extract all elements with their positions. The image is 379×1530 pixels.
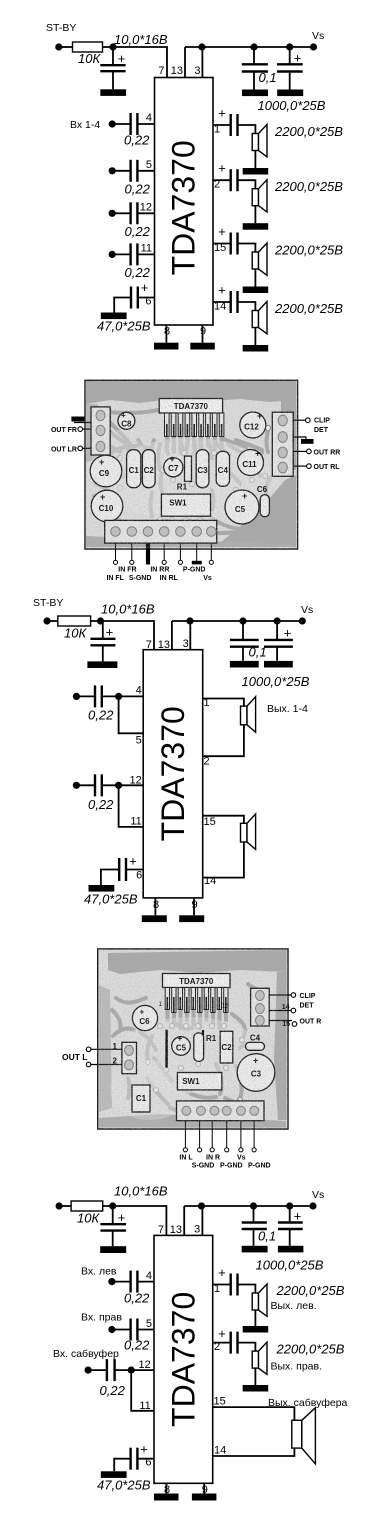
capacitor 0,22 pin11 bbox=[112, 243, 154, 265]
wire resistor to pin7 sch3 bbox=[103, 1206, 167, 1235]
svg-text:IN RR: IN RR bbox=[150, 567, 169, 574]
node pin3 rail junction bbox=[198, 43, 205, 50]
IC TDA7370 silk box A bbox=[159, 399, 222, 414]
node 1000 junction sch3 bbox=[286, 1202, 293, 1209]
capacitor C6 PCB-B bbox=[132, 1005, 157, 1030]
wire pin8 sch2 bbox=[154, 898, 156, 915]
ground ST-BY cap bbox=[100, 89, 126, 96]
wire pin14 to subwoofer sch3 bbox=[213, 1448, 295, 1456]
svg-text:Вых. прав.: Вых. прав. bbox=[271, 1361, 323, 1373]
ground 0,1 cap bbox=[242, 90, 268, 97]
svg-text:6: 6 bbox=[145, 1457, 151, 1469]
resistor R 10K bbox=[73, 42, 103, 52]
svg-text:3: 3 bbox=[194, 1224, 200, 1236]
op-amp U1 TDA7370 sch3 bbox=[154, 1235, 213, 1483]
ground pin8 sch2 bbox=[142, 915, 167, 922]
svg-text:IN R: IN R bbox=[206, 1155, 220, 1162]
wire stub IN FL PCB-A bbox=[131, 543, 133, 560]
capacitor 0,22 input A sch2 bbox=[76, 685, 143, 707]
svg-text:+: + bbox=[218, 106, 226, 121]
ground flag left PCB-A bbox=[71, 417, 91, 423]
ground bar P-GND PCB-A bbox=[192, 561, 202, 565]
wire pin3 drop sch3 bbox=[201, 1206, 203, 1235]
wire pin15 to speaker sch2 bbox=[203, 816, 244, 824]
wire junction to pin5 sch2 bbox=[119, 696, 144, 733]
substrate light zone B bbox=[115, 1017, 265, 1093]
node OUT RR terminal PCB-A bbox=[293, 449, 340, 456]
svg-text:12: 12 bbox=[130, 774, 142, 786]
capacitor 0,22 pin5 sch3 bbox=[112, 1319, 154, 1341]
connector right PCB-B bbox=[251, 988, 270, 1026]
ground speaker pin14 bbox=[243, 345, 269, 352]
node Vs PCB-A bbox=[209, 560, 213, 564]
svg-text:3: 3 bbox=[194, 65, 200, 77]
svg-text:9: 9 bbox=[192, 899, 198, 911]
svg-text:0,22: 0,22 bbox=[100, 1383, 126, 1398]
wire pin8 bbox=[165, 325, 167, 343]
wire speaker to ground pin1 bbox=[254, 151, 256, 169]
wire resistor to pin7 sch2 bbox=[91, 621, 154, 650]
node IN R PCB-B bbox=[210, 1148, 214, 1152]
wire supply rail bbox=[185, 46, 314, 48]
wire pin8 sch3 bbox=[165, 1483, 167, 1493]
wire speaker to ground pin2 bbox=[254, 206, 256, 224]
svg-text:2: 2 bbox=[214, 1341, 220, 1353]
svg-text:11: 11 bbox=[130, 815, 141, 827]
ground speaker pin2 sch3 bbox=[243, 1385, 269, 1392]
svg-text:+: + bbox=[218, 1265, 226, 1280]
node 0,1 junction sch2 bbox=[239, 617, 246, 624]
svg-text:5: 5 bbox=[146, 159, 152, 171]
connector left PCB-A bbox=[91, 407, 110, 455]
wire stub Vs PCB-B bbox=[240, 1121, 242, 1148]
svg-text:8: 8 bbox=[153, 899, 159, 911]
wire pin2 to speaker sch2 bbox=[203, 725, 244, 756]
speaker pin15 bbox=[252, 243, 267, 275]
capacitor C1 PCB-B bbox=[132, 1085, 150, 1112]
node pin3 junction sch2 bbox=[186, 617, 193, 624]
svg-text:P-GND: P-GND bbox=[248, 1163, 271, 1170]
svg-text:6: 6 bbox=[145, 296, 151, 308]
svg-text:Вых. 1-4: Вых. 1-4 bbox=[267, 703, 308, 715]
wire speaker to ground pin1 sch3 bbox=[254, 1310, 256, 1326]
svg-text:IN L: IN L bbox=[179, 1155, 193, 1162]
node ST-BY junction bbox=[109, 43, 116, 50]
wire pin9 sch2 bbox=[193, 898, 195, 915]
capacitor C3 PCB-A bbox=[196, 450, 209, 488]
svg-text:+: + bbox=[218, 283, 226, 298]
svg-text:+: + bbox=[141, 280, 149, 295]
wire stub IN RR PCB-A bbox=[163, 543, 165, 560]
svg-text:0,22: 0,22 bbox=[88, 708, 114, 723]
svg-text:10,0*16В: 10,0*16В bbox=[101, 602, 155, 617]
svg-text:10К: 10К bbox=[64, 626, 87, 641]
node input pin12 bbox=[109, 210, 116, 217]
node junction pin12 sch2 bbox=[115, 782, 122, 789]
svg-text:OUT RR: OUT RR bbox=[314, 450, 341, 457]
op-amp U1 TDA7370 sch2 bbox=[143, 650, 203, 898]
svg-text:+: + bbox=[294, 51, 302, 66]
svg-text:2200,0*25В: 2200,0*25В bbox=[274, 243, 343, 258]
ground ST-BY cap sch2 bbox=[87, 661, 117, 668]
svg-text:Вх 1-4: Вх 1-4 bbox=[70, 119, 100, 131]
svg-text:IN FL: IN FL bbox=[106, 575, 124, 582]
node 14 terminal PCB-B bbox=[269, 1004, 296, 1013]
PCB board A bbox=[85, 380, 298, 549]
svg-text:Vs: Vs bbox=[301, 604, 313, 616]
svg-text:+: + bbox=[106, 625, 114, 640]
svg-text:1000,0*25В: 1000,0*25В bbox=[258, 98, 326, 113]
svg-text:Vs: Vs bbox=[203, 575, 212, 582]
svg-text:Вх. лев: Вх. лев bbox=[81, 1266, 117, 1278]
copper pour bottom right wedge A bbox=[215, 475, 296, 547]
node input pin11 bbox=[109, 251, 116, 258]
wire cap to speaker pin1 sch3 bbox=[238, 1285, 256, 1294]
IC legs A bbox=[165, 413, 224, 437]
node Vs terminal sch3 bbox=[309, 1202, 316, 1209]
jumper wire black 2 B bbox=[202, 1030, 204, 1060]
capacitor C8 PCB-A bbox=[118, 411, 135, 429]
wire stub Vs PCB-A bbox=[210, 543, 212, 560]
svg-text:10,0*16В: 10,0*16В bbox=[114, 1184, 168, 1199]
svg-text:15: 15 bbox=[204, 816, 216, 828]
capacitor C9 PCB-A bbox=[90, 455, 122, 487]
wire cap to speaker pin1 bbox=[238, 125, 256, 134]
connector bottom PCB-A bbox=[105, 520, 217, 543]
svg-text:2200,0*25В: 2200,0*25В bbox=[274, 179, 343, 194]
svg-text:DET: DET bbox=[300, 1003, 315, 1010]
svg-text:10К: 10К bbox=[77, 1211, 100, 1226]
svg-text:+: + bbox=[218, 224, 226, 239]
ground pin8 bbox=[154, 343, 179, 350]
svg-text:13: 13 bbox=[171, 65, 183, 77]
wire stub IN FR PCB-A bbox=[115, 543, 117, 560]
svg-text:0,22: 0,22 bbox=[88, 797, 114, 812]
wire ST-BY to resistor bbox=[59, 46, 73, 48]
node terminal sch3 bbox=[56, 1202, 63, 1209]
svg-text:+: + bbox=[294, 1209, 302, 1224]
speaker pin14 bbox=[252, 302, 267, 334]
capacitor 0,22 pin4 sch3 bbox=[112, 1271, 154, 1293]
capacitor 0,22 pin4 bbox=[112, 113, 154, 135]
traces B bbox=[112, 984, 266, 1113]
ground 47 cap bbox=[101, 313, 127, 320]
grain overlay B bbox=[98, 949, 288, 1129]
svg-text:Вых. лев.: Вых. лев. bbox=[271, 1300, 317, 1312]
capacitor 10,0*16V sch2 bbox=[90, 621, 115, 661]
ground flag right PCB-A bbox=[293, 437, 313, 444]
svg-text:Vs: Vs bbox=[312, 30, 324, 42]
node IN RL PCB-A bbox=[178, 560, 182, 564]
ground pin9 sch3 bbox=[192, 1494, 217, 1501]
speaker OUT2 sch2 bbox=[241, 814, 256, 850]
wire speaker to ground pin2 sch3 bbox=[254, 1368, 256, 1385]
svg-text:OUT FR: OUT FR bbox=[51, 427, 77, 434]
wire stub S-GND thick PCB-A bbox=[146, 543, 150, 564]
svg-text:OUT R: OUT R bbox=[300, 1019, 322, 1026]
svg-text:2: 2 bbox=[214, 179, 220, 191]
svg-text:P-GND: P-GND bbox=[220, 1163, 243, 1170]
ground 0,1 sch2 bbox=[230, 661, 259, 668]
resistor 10K sch3 bbox=[71, 1201, 103, 1211]
wire pin9 sch3 bbox=[203, 1483, 205, 1493]
svg-text:ST-BY: ST-BY bbox=[33, 597, 63, 609]
svg-text:TDA7370: TDA7370 bbox=[155, 706, 191, 841]
wire speaker to ground pin15 bbox=[254, 269, 256, 287]
svg-text:2200,0*25В: 2200,0*25В bbox=[276, 1342, 345, 1357]
svg-text:10К: 10К bbox=[78, 51, 101, 66]
capacitor 0,22 pin5 bbox=[112, 160, 154, 182]
capacitor C5 PCB-A bbox=[225, 490, 259, 524]
svg-text:OUT L: OUT L bbox=[62, 1052, 88, 1062]
capacitor 47,0*25V sch3 bbox=[114, 1442, 154, 1472]
wire cap to speaker pin2 sch3 bbox=[238, 1343, 256, 1352]
IC legs B bbox=[165, 988, 228, 1014]
wire cap to speaker pin15 bbox=[238, 244, 256, 253]
svg-text:9: 9 bbox=[200, 326, 206, 338]
substrate light zone A bbox=[105, 438, 275, 522]
svg-text:P-GND: P-GND bbox=[183, 567, 206, 574]
resistor R1 PCB-A bbox=[177, 456, 192, 491]
wire OUT L bottom B bbox=[90, 1064, 122, 1066]
svg-text:6: 6 bbox=[136, 870, 142, 882]
svg-text:Vs: Vs bbox=[312, 1189, 324, 1201]
svg-text:2: 2 bbox=[204, 756, 210, 768]
connector left PCB-B bbox=[122, 1042, 137, 1073]
connector right PCB-A bbox=[272, 412, 293, 476]
wire terminal to resistor sch3 bbox=[59, 1205, 71, 1207]
grain overlay A bbox=[85, 380, 298, 549]
capacitor 47,0*25V pin6 bbox=[114, 280, 154, 313]
ground 1000 sch3 bbox=[278, 1246, 304, 1253]
wire terminal to resistor sch2 bbox=[47, 620, 58, 622]
svg-text:CLIP: CLIP bbox=[314, 418, 330, 425]
wire OUT L top B bbox=[90, 1048, 122, 1050]
svg-text:+: + bbox=[118, 51, 126, 66]
ground pin9 bbox=[190, 343, 215, 350]
node junction pin4 sch2 bbox=[115, 693, 122, 700]
wire junction to pin11 sch3 bbox=[131, 1370, 154, 1411]
capacitor 0,1 sch2 bbox=[230, 621, 267, 661]
copper pour right column A bbox=[281, 399, 296, 470]
svg-text:7: 7 bbox=[158, 1224, 164, 1236]
ground speaker pin2 bbox=[243, 223, 269, 230]
svg-text:47,0*25В: 47,0*25В bbox=[97, 1478, 151, 1493]
node OUT R terminal PCB-B bbox=[269, 1019, 321, 1029]
node junction pin12 sch3 bbox=[128, 1367, 135, 1374]
wire stub IN RL PCB-A bbox=[179, 543, 181, 560]
PCB board B bbox=[98, 949, 288, 1129]
svg-text:5: 5 bbox=[136, 735, 142, 747]
node junction sch3 bbox=[109, 1202, 116, 1209]
ground pin9 sch2 bbox=[179, 915, 204, 922]
svg-text:0,22: 0,22 bbox=[124, 1291, 150, 1306]
svg-text:47,0*25В: 47,0*25В bbox=[84, 892, 138, 907]
svg-text:S-GND: S-GND bbox=[129, 575, 152, 582]
wire stub P-GND2 PCB-B bbox=[253, 1121, 255, 1148]
node pin3 junction sch3 bbox=[198, 1202, 205, 1209]
capacitor C7 PCB-A bbox=[164, 454, 183, 477]
svg-text:10,0*16В: 10,0*16В bbox=[114, 32, 168, 47]
capacitor C5 PCB-B bbox=[172, 1034, 191, 1055]
svg-text:13: 13 bbox=[158, 639, 170, 651]
node OUT FR terminal PCB-A bbox=[51, 427, 91, 434]
wire pin1 to speaker sch2 bbox=[203, 699, 244, 707]
svg-text:0,1: 0,1 bbox=[249, 645, 267, 660]
speaker right sch3 bbox=[252, 1342, 267, 1374]
svg-text:0,1: 0,1 bbox=[258, 1229, 276, 1244]
svg-text:+: + bbox=[284, 626, 292, 641]
svg-text:TDA7370: TDA7370 bbox=[166, 140, 202, 275]
svg-text:1: 1 bbox=[214, 1283, 220, 1295]
wire supply rail sch3 bbox=[184, 1205, 313, 1207]
node IN RR PCB-A bbox=[162, 560, 166, 564]
capacitor 1000,0*25V bbox=[277, 47, 303, 90]
ground 47 cap sch3 bbox=[101, 1471, 127, 1478]
node ST-BY terminal sch2 bbox=[43, 617, 50, 624]
switch SW1 PCB-A bbox=[161, 494, 210, 516]
node Vs terminal bbox=[310, 43, 317, 50]
node CLIP DET terminal PCB-B bbox=[269, 993, 316, 1010]
capacitor C4 PCB-A bbox=[216, 451, 229, 486]
switch SW1 PCB-B bbox=[177, 1073, 221, 1090]
node 1000 cap junction bbox=[286, 43, 293, 50]
IC TDA7370 silk box B bbox=[163, 974, 231, 988]
node OUT L top B bbox=[86, 1047, 91, 1052]
ground speaker pin1 sch3 bbox=[243, 1326, 269, 1333]
node P-GND2 PCB-B bbox=[252, 1148, 256, 1152]
node OUT RL terminal PCB-A bbox=[293, 464, 340, 471]
svg-text:IN FR: IN FR bbox=[118, 567, 136, 574]
svg-text:Вх. сабвуфер: Вх. сабвуфер bbox=[53, 1348, 119, 1360]
capacitor 1000,0*25V sch2 bbox=[264, 621, 293, 661]
node CLIP DET terminal PCB-A bbox=[293, 418, 330, 435]
svg-text:ST-BY: ST-BY bbox=[46, 22, 76, 34]
ground pin8 sch3 bbox=[154, 1494, 179, 1501]
svg-text:DET: DET bbox=[314, 427, 329, 434]
wire cap to speaker pin14 bbox=[238, 302, 256, 311]
capacitor 2200,0*25V pin2 sch3 bbox=[213, 1326, 238, 1354]
node input B sch2 bbox=[73, 782, 80, 789]
svg-text:1000,0*25В: 1000,0*25В bbox=[256, 1258, 324, 1273]
node 0,1 junction sch3 bbox=[250, 1202, 257, 1209]
wire pin13 drop sch2 bbox=[171, 621, 173, 650]
svg-text:14: 14 bbox=[214, 1445, 226, 1457]
svg-text:4: 4 bbox=[146, 1270, 152, 1282]
svg-text:2200,0*25В: 2200,0*25В bbox=[274, 124, 343, 139]
copper pour bottom strip B bbox=[99, 1114, 286, 1128]
node 0,1 cap junction bbox=[250, 43, 257, 50]
svg-text:TDA7370: TDA7370 bbox=[165, 1292, 201, 1427]
capacitor C3 PCB-B bbox=[237, 1054, 275, 1092]
copper pour left strip B bbox=[99, 985, 112, 1112]
node OUT L bottom B bbox=[86, 1062, 91, 1067]
capacitor 2200,0*25V pin14 bbox=[213, 283, 238, 314]
node input pin5 sch3 bbox=[108, 1326, 115, 1333]
capacitor C4 PCB-B bbox=[246, 1034, 265, 1051]
jumper wire black 1 B bbox=[165, 1030, 167, 1068]
svg-text:12: 12 bbox=[139, 1359, 151, 1371]
node 1000 junction sch2 bbox=[274, 617, 281, 624]
svg-text:1: 1 bbox=[214, 124, 220, 136]
wire pin3 drop bbox=[201, 47, 203, 78]
svg-text:+: + bbox=[118, 1210, 126, 1225]
traces A bbox=[94, 410, 271, 534]
node OUT LR terminal PCB-A bbox=[51, 446, 91, 453]
wire pin9 bbox=[202, 325, 204, 343]
svg-text:2200,0*25В: 2200,0*25В bbox=[274, 301, 343, 316]
svg-text:3: 3 bbox=[183, 638, 189, 650]
svg-text:7: 7 bbox=[146, 639, 152, 651]
svg-text:2200,0*25В: 2200,0*25В bbox=[276, 1283, 345, 1298]
node input pin4 bbox=[109, 120, 116, 127]
capacitor C1 PCB-A bbox=[127, 450, 141, 488]
svg-text:0,22: 0,22 bbox=[125, 182, 151, 197]
capacitor 2200,0*25V pin2 bbox=[213, 161, 238, 192]
capacitor C2 PCB-A bbox=[142, 450, 155, 488]
copper pour top band A bbox=[86, 381, 296, 404]
wire pin13 drop sch3 bbox=[183, 1206, 185, 1235]
node IN FL PCB-A bbox=[130, 560, 134, 564]
wire pin15 to subwoofer sch3 bbox=[213, 1407, 295, 1420]
capacitor 0,1 sch3 bbox=[242, 1206, 276, 1246]
ground speaker pin1 bbox=[243, 168, 269, 175]
ground 1000 sch2 bbox=[264, 661, 293, 668]
svg-text:15: 15 bbox=[214, 242, 226, 254]
wire pin14 to speaker sch2 bbox=[203, 842, 244, 878]
op-amp U1 TDA7370 bbox=[155, 78, 214, 326]
node input pin5 bbox=[109, 167, 116, 174]
capacitor 0,1 bbox=[242, 47, 277, 90]
node input A sch2 bbox=[73, 693, 80, 700]
svg-text:0,22: 0,22 bbox=[124, 133, 150, 148]
capacitor 0,22 pin12 bbox=[112, 202, 154, 224]
svg-text:11: 11 bbox=[141, 242, 152, 254]
svg-text:4: 4 bbox=[146, 112, 152, 124]
wire junction to pin11 sch2 bbox=[119, 785, 144, 827]
copper pour top band B bbox=[108, 950, 287, 974]
node input sub sch3 bbox=[85, 1367, 92, 1374]
resistor 10K sch2 bbox=[58, 616, 91, 626]
speaker subwoofer sch3 bbox=[292, 1408, 316, 1464]
svg-text:+: + bbox=[218, 1326, 226, 1341]
wire resistor to node bbox=[103, 46, 114, 48]
node S-GND PCB-B bbox=[198, 1148, 202, 1152]
capacitor 2200,0*25V pin1 bbox=[213, 106, 238, 137]
wire stub P-GND PCB-A bbox=[196, 543, 198, 561]
svg-text:14: 14 bbox=[214, 301, 226, 313]
svg-text:4: 4 bbox=[136, 685, 142, 697]
wire speaker to ground pin14 bbox=[254, 328, 256, 346]
svg-text:+: + bbox=[140, 1442, 148, 1457]
capacitor 10,0*16V sch3 bbox=[100, 1206, 126, 1246]
copper pour left strip A bbox=[86, 404, 98, 462]
ground ST-BY cap sch3 bbox=[100, 1246, 126, 1253]
svg-text:0,22: 0,22 bbox=[125, 224, 151, 239]
wire pin3 drop sch2 bbox=[189, 621, 191, 650]
svg-text:Вх. прав: Вх. прав bbox=[81, 1312, 122, 1324]
capacitor C2 PCB-B bbox=[220, 1031, 233, 1063]
node ST-BY terminal bbox=[55, 43, 62, 50]
copper pour right column B bbox=[274, 972, 287, 1120]
connector bottom PCB-B bbox=[177, 1101, 265, 1121]
svg-text:IN RL: IN RL bbox=[160, 575, 179, 582]
speaker pin2 bbox=[252, 180, 267, 212]
resistor R1 PCB-B bbox=[194, 1033, 217, 1062]
svg-text:47,0*25В: 47,0*25В bbox=[97, 319, 151, 334]
wire stub P-GND1 PCB-B bbox=[226, 1121, 228, 1148]
svg-text:OUT LR: OUT LR bbox=[51, 446, 77, 453]
